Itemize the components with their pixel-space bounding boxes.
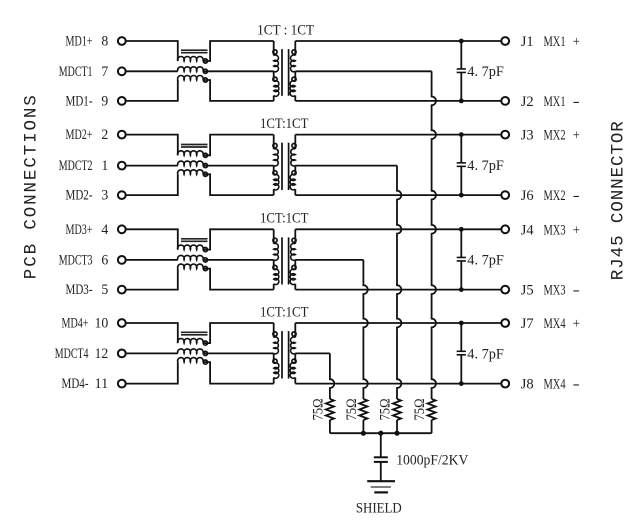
node J1 MX1 + (RJ45 pin) — [501, 34, 579, 50]
svg-text:MDCT3: MDCT3 — [59, 253, 93, 269]
svg-text:J3: J3 — [521, 128, 534, 144]
svg-text:-: - — [573, 283, 580, 299]
svg-text:4. 7pF: 4. 7pF — [467, 158, 504, 174]
svg-text:MD2+: MD2+ — [66, 127, 93, 143]
wire transformer T3 to J5 (bottom) — [295, 289, 501, 291]
svg-text:J2: J2 — [521, 94, 534, 110]
wire common termination bus — [330, 432, 432, 434]
capacitor C2 4.7pF (channel 2) — [457, 135, 466, 196]
node J2 MX1 - (RJ45 pin) — [501, 94, 579, 110]
node MD2+ pin 2 (input pad, channel 2) — [66, 127, 126, 143]
svg-text:MDCT4: MDCT4 — [55, 346, 89, 362]
svg-text:4. 7pF: 4. 7pF — [467, 253, 504, 269]
svg-text:75Ω: 75Ω — [310, 399, 326, 421]
node J7 MX4 + (RJ45 pin) — [501, 316, 579, 332]
capacitor C1 4.7pF (channel 1) — [457, 41, 466, 101]
svg-text:MX3: MX3 — [544, 283, 566, 299]
svg-text:MX2: MX2 — [544, 188, 566, 204]
svg-text:-: - — [573, 377, 580, 393]
svg-text:MD1-: MD1- — [66, 94, 93, 110]
svg-text:MX4: MX4 — [544, 377, 566, 393]
svg-text:75Ω: 75Ω — [412, 399, 428, 421]
wire bus to capacitor C5 — [380, 433, 382, 457]
svg-text:MDCT2: MDCT2 — [59, 158, 93, 174]
svg-text:1CT:1CT: 1CT:1CT — [260, 116, 308, 132]
svg-text:MD3-: MD3- — [66, 282, 93, 298]
wire MDCT3 to choke CM3 — [126, 259, 178, 261]
svg-text:-: - — [573, 94, 580, 110]
wire choke CM4 to transformer T4 (bottom) — [203, 362, 274, 384]
wire MD1- to choke CM1 — [126, 80, 178, 101]
svg-text:3: 3 — [101, 188, 108, 204]
wire MD3- to choke CM3 — [126, 269, 178, 290]
transformer T1 1CT:1CT (channel 1) — [273, 41, 296, 101]
wire secondary center tap T4 to resistor R4 (with hops) — [295, 352, 330, 354]
svg-text:J6: J6 — [521, 188, 534, 204]
wire MDCT1 to choke CM1 — [126, 70, 178, 72]
node J3 MX2 + (RJ45 pin) — [501, 128, 579, 144]
wire choke CM3 to transformer T3 (bottom) — [203, 269, 274, 290]
wire secondary center tap T3 to resistor R3 (with hops) — [295, 259, 363, 261]
junction (cap C4 bottom) — [459, 381, 464, 386]
node J6 MX2 - (RJ45 pin) — [501, 188, 579, 204]
wire MD3+ to choke CM3 — [126, 229, 178, 249]
node MD2- pin 3 (input pad, channel 2) — [66, 188, 126, 204]
svg-text:10: 10 — [95, 316, 109, 332]
node MDCT3 pin 6 (center-tap pad, channel 3) — [59, 253, 126, 269]
svg-text:1CT : 1CT: 1CT : 1CT — [257, 22, 314, 38]
wire transformer T1 to J1 (top) — [295, 40, 501, 42]
resistor R2 75Ω (termination, channel 2) — [393, 399, 401, 433]
svg-text:+: + — [573, 316, 580, 332]
svg-text:SHIELD: SHIELD — [356, 501, 402, 517]
capacitor C3 4.7pF (channel 3) — [457, 229, 466, 289]
svg-text:J8: J8 — [521, 377, 534, 393]
capacitor C5 1000pF/2KV — [374, 457, 388, 462]
wire choke CM1 to transformer T1 (bottom) — [203, 80, 274, 101]
svg-text:+: + — [573, 34, 580, 50]
node J4 MX3 + (RJ45 pin) — [501, 222, 579, 238]
svg-text:MD4-: MD4- — [62, 376, 89, 392]
wire MDCT2 to choke CM2 — [126, 165, 178, 167]
wire MD4- to choke CM4 — [126, 362, 178, 384]
wire MDCT4 to choke CM4 — [126, 352, 178, 354]
node MD4- pin 11 (input pad, channel 4) — [62, 376, 126, 392]
svg-text:8: 8 — [101, 34, 108, 50]
svg-text:MD2-: MD2- — [66, 188, 93, 204]
wire MD2+ to choke CM2 — [126, 135, 178, 156]
node J8 MX4 - (RJ45 pin) — [501, 377, 579, 393]
svg-text:J1: J1 — [521, 34, 534, 50]
junction (R2 to bus) — [361, 431, 366, 436]
svg-text:12: 12 — [95, 346, 109, 362]
junction (cap C2 bottom) — [459, 193, 464, 198]
common-mode choke CM3 (channel 3) — [178, 239, 208, 271]
node MDCT2 pin 1 (center-tap pad, channel 2) — [59, 158, 126, 174]
wire transformer T2 to J3 (top) — [295, 134, 501, 136]
transformer T3 1CT:1CT (channel 3) — [273, 229, 296, 289]
svg-text:2: 2 — [101, 127, 108, 143]
node MDCT4 pin 12 (center-tap pad, channel 4) — [55, 346, 126, 362]
svg-text:7: 7 — [101, 64, 108, 80]
node MD3- pin 5 (input pad, channel 3) — [66, 282, 126, 298]
svg-text:J4: J4 — [521, 222, 534, 238]
svg-text:MD3+: MD3+ — [66, 222, 93, 238]
svg-text:4. 7pF: 4. 7pF — [467, 64, 504, 80]
capacitor C4 4.7pF (channel 4) — [457, 323, 466, 384]
junction (cap C2 top) — [459, 132, 464, 137]
svg-text:+: + — [573, 222, 580, 238]
wire transformer T1 to J2 (bottom) — [295, 100, 501, 102]
wire choke CM1 to transformer T1 (center tap) — [203, 70, 274, 72]
resistor R4 75Ω (termination, channel 4) — [326, 399, 334, 433]
wire secondary center tap T2 to resistor R2 (with hops) — [295, 165, 397, 167]
svg-text:4. 7pF: 4. 7pF — [467, 346, 504, 362]
common-mode choke CM2 (channel 2) — [178, 145, 208, 177]
wire transformer T4 to J8 (bottom) — [295, 383, 501, 385]
svg-text:J5: J5 — [521, 283, 534, 299]
common-mode choke CM4 (channel 4) — [178, 332, 208, 364]
wire choke CM2 to transformer T2 (center tap) — [203, 165, 274, 167]
wire choke CM3 to transformer T3 (top) — [203, 229, 274, 249]
svg-text:RJ45 CONNECTOR: RJ45 CONNECTOR — [609, 121, 629, 280]
svg-text:9: 9 — [101, 94, 108, 110]
junction (R3 to bus) — [394, 431, 399, 436]
svg-text:MX1: MX1 — [544, 34, 566, 50]
wire choke CM2 to transformer T2 (top) — [203, 135, 274, 156]
node MD1- pin 9 (input pad, channel 1) — [66, 94, 126, 110]
svg-text:+: + — [573, 128, 580, 144]
wire MD2- to choke CM2 — [126, 174, 178, 195]
svg-text:MD4+: MD4+ — [62, 316, 89, 332]
svg-text:-: - — [573, 188, 580, 204]
svg-text:11: 11 — [95, 376, 109, 392]
wire secondary center tap T1 to resistor R1 (with hops) — [295, 70, 431, 72]
svg-text:4: 4 — [101, 222, 108, 238]
svg-text:PCB CONNECTIONS: PCB CONNECTIONS — [22, 95, 42, 279]
resistor R1 75Ω (termination, channel 1) — [428, 399, 436, 433]
junction (cap C1 bottom) — [459, 99, 464, 104]
node MD3+ pin 4 (input pad, channel 3) — [66, 222, 126, 238]
node MDCT1 pin 7 (center-tap pad, channel 1) — [59, 64, 126, 80]
transformer T4 1CT:1CT (channel 4) — [273, 323, 296, 384]
svg-text:1: 1 — [101, 158, 108, 174]
svg-text:6: 6 — [101, 253, 108, 269]
junction (cap C3 top) — [459, 227, 464, 232]
wire choke CM1 to transformer T1 (top) — [203, 41, 274, 61]
svg-text:J7: J7 — [521, 316, 534, 332]
svg-text:1000pF/2KV: 1000pF/2KV — [396, 453, 468, 469]
svg-text:MX4: MX4 — [544, 316, 566, 332]
wire choke CM3 to transformer T3 (center tap) — [203, 259, 274, 261]
node J5 MX3 - (RJ45 pin) — [501, 283, 579, 299]
junction (cap C3 bottom) — [459, 287, 464, 292]
svg-text:75Ω: 75Ω — [344, 399, 360, 421]
wire MD4+ to choke CM4 — [126, 323, 178, 343]
wire choke CM4 to transformer T4 (center tap) — [203, 352, 274, 354]
wire choke CM4 to transformer T4 (top) — [203, 323, 274, 343]
svg-text:75Ω: 75Ω — [378, 399, 394, 421]
svg-text:MX1: MX1 — [544, 94, 566, 110]
svg-text:MDCT1: MDCT1 — [59, 64, 93, 80]
wire transformer T4 to J7 (top) — [295, 322, 501, 324]
svg-text:MX3: MX3 — [544, 222, 566, 238]
node MD1+ pin 8 (input pad, channel 1) — [66, 34, 126, 50]
node MD4+ pin 10 (input pad, channel 4) — [62, 316, 126, 332]
wire MD1+ to choke CM1 — [126, 41, 178, 61]
common-mode choke CM1 (channel 1) — [178, 50, 208, 82]
wire transformer T2 to J6 (bottom) — [295, 194, 501, 196]
svg-text:MX2: MX2 — [544, 128, 566, 144]
svg-text:1CT:1CT: 1CT:1CT — [260, 304, 308, 320]
junction (cap C1 top) — [459, 39, 464, 44]
svg-text:MD1+: MD1+ — [66, 34, 93, 50]
svg-text:1CT:1CT: 1CT:1CT — [260, 211, 308, 227]
transformer T2 1CT:1CT (channel 2) — [273, 135, 296, 196]
wire choke CM2 to transformer T2 (bottom) — [203, 174, 274, 195]
ground (chassis SHIELD) — [367, 481, 395, 492]
svg-text:5: 5 — [101, 282, 108, 298]
junction (C5 tap on bus) — [378, 431, 383, 436]
wire capacitor C5 to ground — [380, 462, 382, 481]
junction (cap C4 top) — [459, 321, 464, 326]
wire transformer T3 to J4 (top) — [295, 228, 501, 230]
resistor R3 75Ω (termination, channel 3) — [359, 399, 367, 433]
